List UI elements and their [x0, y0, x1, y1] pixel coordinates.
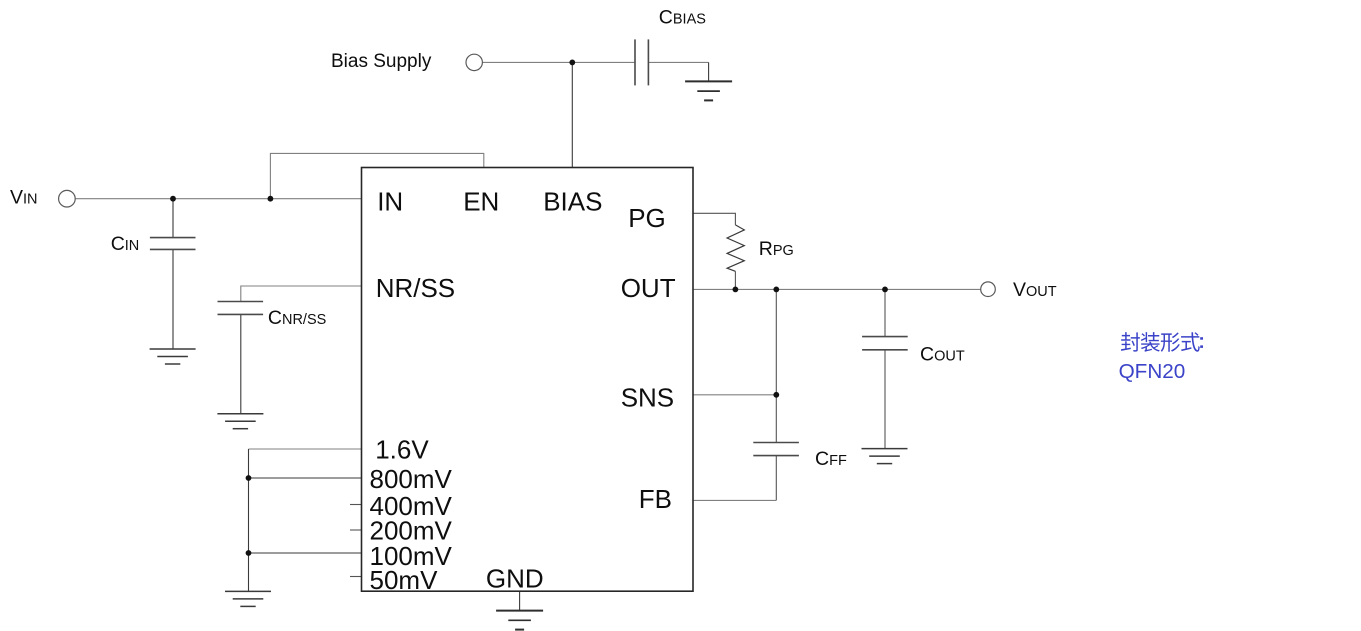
- capacitor CFF: [753, 443, 799, 456]
- capacitor COUT: [862, 337, 908, 350]
- wire CBIAS to ground corner: [648, 61, 708, 63]
- svg-text:QFN20: QFN20: [1119, 360, 1186, 383]
- svg-text:Bias Supply: Bias Supply: [331, 51, 432, 72]
- node junction OUT/COUT: [882, 287, 888, 293]
- node junction RPG/OUT: [733, 287, 739, 293]
- wire ballast bus: [248, 449, 250, 591]
- wire FB pin: [693, 499, 776, 501]
- terminal VOUT: [981, 282, 996, 297]
- wire EN tie-off loop: [270, 153, 483, 198]
- ground at COUT: [862, 449, 908, 464]
- node junction VIN/EN: [268, 196, 274, 202]
- wire NR/SS pin: [241, 286, 362, 301]
- wire 200mV stub: [350, 529, 362, 531]
- terminal VIN: [59, 190, 76, 207]
- wire CIN lower lead: [172, 250, 174, 349]
- ground at CNR/SS: [217, 414, 263, 429]
- wire CBIAS ground drop: [708, 62, 710, 81]
- svg-text:SNS: SNS: [621, 383, 674, 413]
- ground at GND pin: [496, 611, 543, 630]
- wire 800mV pin: [249, 477, 362, 479]
- wire SNS pin: [693, 394, 776, 396]
- node junction BIAS: [569, 60, 575, 66]
- wire 100mV pin: [249, 552, 362, 554]
- resistor RPG: [727, 225, 744, 271]
- wire CFF to FB net: [775, 456, 777, 500]
- terminal Bias Supply: [466, 54, 482, 70]
- ground at ballast bus: [225, 591, 271, 606]
- wire COUT upper lead: [884, 289, 886, 336]
- svg-text:NR/SS: NR/SS: [376, 273, 455, 303]
- wire VIN to IN pin: [75, 198, 361, 200]
- wire 50mV stub: [350, 576, 362, 578]
- svg-text:OUT: OUT: [621, 273, 676, 303]
- note package type text 封装形式:: [1121, 332, 1203, 352]
- node junction SNS/CFF: [773, 392, 779, 398]
- svg-text:50mV: 50mV: [370, 565, 439, 595]
- wire 400mV stub: [350, 504, 362, 506]
- wire CIN upper lead: [172, 199, 174, 237]
- wire OUT to CFF: [775, 289, 777, 442]
- node junction 800mV: [246, 475, 252, 481]
- node junction OUT/CFF branch: [773, 287, 779, 293]
- wire CNR/SS lower lead: [240, 315, 242, 414]
- capacitor CBIAS: [635, 39, 648, 85]
- svg-text:IN: IN: [377, 187, 403, 217]
- capacitor CNR/SS: [218, 302, 264, 315]
- ground at CIN: [150, 349, 196, 364]
- svg-text:PG: PG: [628, 203, 666, 233]
- wire GND pin drop: [519, 591, 521, 610]
- wire PG pin to RPG: [693, 213, 735, 225]
- capacitor CIN: [150, 238, 196, 250]
- wire RPG to OUT net: [734, 271, 736, 289]
- wire COUT lower lead: [884, 350, 886, 448]
- svg-text:1.6V: 1.6V: [375, 434, 429, 464]
- node junction 100mV: [246, 550, 252, 556]
- svg-text:GND: GND: [486, 564, 544, 594]
- node junction VIN/CIN: [170, 196, 176, 202]
- op-amp U1 regulator IC body: [362, 168, 694, 592]
- ground at CBIAS: [685, 81, 732, 100]
- wire 1.6V pin: [249, 448, 362, 450]
- svg-text:BIAS: BIAS: [543, 187, 602, 217]
- svg-text:EN: EN: [463, 187, 499, 217]
- wire OUT net: [693, 288, 981, 290]
- svg-text:FB: FB: [639, 484, 672, 514]
- wire Bias Supply to CBIAS: [482, 61, 635, 63]
- wire BIAS pin drop: [571, 62, 573, 167]
- svg-text:800mV: 800mV: [370, 464, 453, 494]
